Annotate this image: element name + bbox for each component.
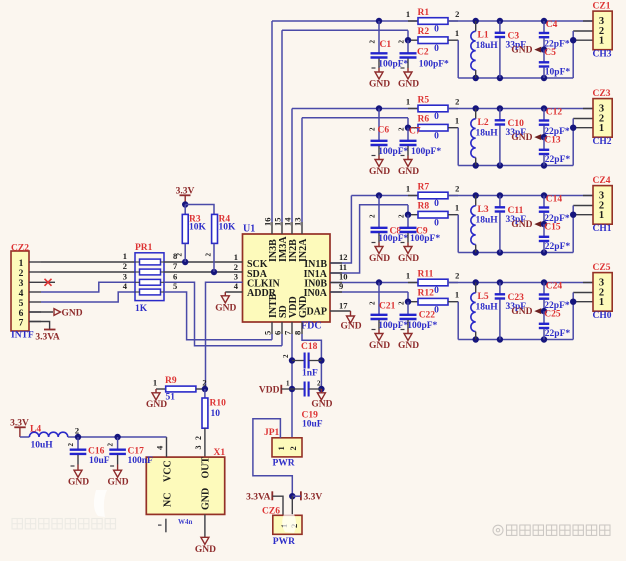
capacitor C15 (543, 224, 545, 236)
svg-text:OUT: OUT (201, 457, 212, 479)
node R4 junction (211, 269, 217, 275)
op-amp U1 body (243, 234, 331, 322)
connector CZ5 (583, 282, 593, 284)
svg-text:0: 0 (434, 44, 439, 54)
svg-text:2: 2 (288, 446, 298, 450)
svg-text:10: 10 (211, 409, 221, 419)
capacitor C25 (543, 311, 545, 323)
wire CZ2 pin1 to PR1 pin1 (41, 261, 135, 263)
svg-text:NC: NC (163, 493, 174, 507)
node between caps (541, 134, 547, 140)
ground at R9 pin1 (155, 389, 157, 393)
svg-text:C16: C16 (88, 446, 105, 456)
svg-text:4: 4 (19, 289, 24, 299)
inductor L1 (473, 18, 479, 24)
svg-text:18uH: 18uH (476, 41, 499, 51)
svg-text:1: 1 (455, 116, 459, 126)
svg-text:2: 2 (398, 127, 406, 131)
svg-text:CH2: CH2 (593, 137, 612, 147)
ground C16 (77, 465, 79, 471)
node R9/R10/CLKIN junction (202, 386, 208, 392)
svg-text:10uF: 10uF (302, 419, 323, 429)
wire JP1 pin1 to 3.3V node (253, 419, 292, 496)
svg-text:CZ3: CZ3 (593, 89, 611, 99)
wire drop to second-row junction (407, 30, 409, 40)
connector CZ2 body (11, 251, 29, 331)
svg-text:18uH: 18uH (476, 303, 499, 313)
svg-text:GND: GND (398, 341, 419, 351)
wire R11 output to connector (448, 282, 593, 284)
svg-text:6: 6 (173, 272, 177, 282)
wire net to R2 (second row) (281, 30, 283, 222)
svg-text:C6: C6 (378, 126, 390, 136)
svg-text:C4: C4 (546, 20, 558, 30)
svg-text:VCC: VCC (163, 460, 174, 482)
ground C1 (378, 68, 380, 72)
svg-text:PWR: PWR (273, 458, 295, 468)
wire net to R1 (top row) (271, 21, 273, 222)
svg-text:2: 2 (107, 443, 115, 447)
svg-text:R9: R9 (165, 376, 177, 386)
X1 pin 4 stub (166, 437, 168, 457)
capacitor C21 (376, 279, 382, 285)
svg-text:C5: C5 (544, 48, 556, 58)
watermark highlight blobs (94, 490, 107, 517)
node between caps (541, 308, 547, 314)
svg-text:12: 12 (339, 252, 348, 262)
svg-text:2: 2 (398, 214, 406, 218)
ground C21 (378, 330, 380, 334)
svg-text:4: 4 (155, 445, 165, 450)
wire 3.3VA to CZ6 pin1 (272, 496, 283, 515)
svg-text:2: 2 (123, 261, 127, 271)
capacitor C22 (405, 299, 411, 305)
svg-text:VDD: VDD (259, 386, 280, 396)
svg-text:R11: R11 (418, 270, 434, 280)
svg-text:2: 2 (369, 214, 377, 218)
connector CZ1 (583, 20, 593, 22)
svg-text:C14: C14 (546, 195, 563, 205)
svg-text:C18: C18 (301, 342, 318, 352)
svg-text:JP1: JP1 (264, 428, 280, 438)
svg-text:CH3: CH3 (593, 49, 612, 59)
DAP pin 17 to ground (330, 310, 351, 312)
svg-text:1: 1 (123, 251, 127, 261)
svg-text:0: 0 (434, 112, 439, 122)
svg-text:10uF: 10uF (89, 456, 110, 466)
svg-text:L4: L4 (30, 424, 41, 434)
wire net to R12 (second row) (330, 291, 408, 293)
wire 3.3V node to CZ6 pin2 (291, 496, 293, 515)
svg-text:DAP: DAP (306, 307, 327, 318)
svg-text:R1: R1 (418, 8, 430, 18)
wire R10 to X1 OUT (204, 428, 206, 457)
svg-text:R6: R6 (418, 115, 430, 125)
svg-text:GND: GND (398, 167, 419, 177)
svg-text:GND: GND (62, 308, 83, 318)
svg-text:C25: C25 (544, 310, 561, 320)
wire R7 output to connector (448, 195, 593, 197)
inductor L2 (473, 105, 479, 111)
wire R1 output to connector (448, 20, 593, 22)
ground at ADDR (221, 296, 229, 303)
capacitor C18 (289, 357, 295, 363)
wire drop to second-row junction (407, 292, 409, 302)
svg-text:3.3V: 3.3V (304, 492, 323, 502)
svg-text:3: 3 (194, 446, 203, 450)
svg-text:C12: C12 (546, 108, 563, 118)
svg-text:14: 14 (283, 217, 293, 226)
svg-text:2: 2 (398, 40, 406, 44)
wire PR1 pin7 to U1 SDA (164, 271, 243, 273)
CZ2 pin7 to 3.3VA power (29, 322, 50, 330)
svg-text:100nF: 100nF (128, 456, 154, 466)
wire CZ2 pin4 to PR1 pin3 (41, 282, 135, 292)
wire net to R7 (top row) (330, 196, 351, 264)
wire net to R11 (top row) (330, 282, 418, 284)
svg-text:10pF*: 10pF* (545, 68, 571, 78)
node 3.3V junction (289, 493, 295, 499)
wire L4 to X1 VCC (68, 436, 167, 438)
svg-text:2: 2 (455, 9, 459, 19)
ground C7 (407, 156, 409, 160)
capacitor C5 (543, 50, 545, 62)
svg-text:C13: C13 (544, 136, 561, 146)
svg-text:1: 1 (455, 28, 459, 38)
svg-text:22pF*: 22pF* (545, 155, 571, 165)
svg-text:2: 2 (317, 379, 321, 387)
wire net to R8 (second row) (330, 205, 408, 273)
svg-text:0: 0 (434, 199, 439, 209)
wire PR1 pin8 to U1 SCK (164, 261, 243, 263)
svg-text:1: 1 (455, 203, 459, 213)
svg-text:1nF: 1nF (302, 369, 318, 379)
svg-text:GND: GND (369, 341, 390, 351)
svg-text:GND: GND (511, 307, 532, 317)
svg-text:GND: GND (311, 400, 332, 410)
ground rail (458, 165, 573, 167)
capacitor C24 (541, 279, 547, 285)
svg-text:GND: GND (398, 254, 419, 264)
svg-text:C24: C24 (546, 282, 563, 292)
svg-text:2: 2 (369, 40, 377, 44)
wire drop to second-row junction (407, 205, 409, 215)
U1 right pin stubs (330, 262, 342, 264)
ground C6 (378, 156, 380, 160)
node C16 tap (75, 434, 81, 440)
node 3.3V junction (182, 201, 188, 207)
wire connector pins to rail (572, 206, 574, 253)
svg-text:GND: GND (340, 322, 361, 332)
svg-text:R10: R10 (210, 399, 227, 409)
svg-text:GND: GND (511, 220, 532, 230)
svg-text:GND: GND (68, 477, 89, 487)
wire to R4 top (185, 205, 214, 215)
X1 pin1 stub (165, 519, 167, 533)
connector CZ3 (583, 108, 593, 110)
svg-text:7: 7 (173, 261, 178, 271)
ground rail (458, 339, 573, 341)
svg-text:2: 2 (67, 443, 75, 447)
wire R12 to ground rail (457, 302, 459, 340)
svg-text:GND: GND (369, 254, 390, 264)
svg-text:16: 16 (263, 218, 273, 227)
wire U1 INTB pin stub (271, 322, 273, 334)
svg-text:PWR: PWR (273, 537, 295, 547)
node between caps (541, 221, 547, 227)
svg-text:2: 2 (205, 253, 213, 257)
svg-text:GND: GND (201, 488, 212, 510)
wire net to R6 (second row) (301, 118, 303, 222)
capacitor C11 (497, 192, 503, 198)
power 3.3V label (300, 491, 302, 500)
svg-text:L5: L5 (478, 292, 489, 302)
svg-text:100pF*: 100pF* (411, 147, 441, 157)
wire PR1 pin5 to U1 INTB (164, 292, 272, 340)
svg-text:CH0: CH0 (593, 311, 612, 321)
svg-text:GND: GND (195, 545, 216, 555)
svg-text:C7: C7 (409, 127, 421, 137)
svg-text:C21: C21 (379, 302, 396, 312)
inductor L3 (473, 192, 479, 198)
svg-text:2: 2 (282, 354, 290, 358)
ground C2 (407, 68, 409, 72)
svg-text:2: 2 (398, 301, 406, 305)
capacitor C2 (405, 37, 411, 43)
svg-text:C1: C1 (380, 40, 392, 50)
svg-text:CH1: CH1 (593, 224, 612, 234)
svg-text:1: 1 (406, 183, 410, 193)
svg-text:PR1: PR1 (135, 243, 153, 253)
svg-text:GND: GND (369, 167, 390, 177)
svg-text:1: 1 (599, 210, 604, 221)
resistor R4 (212, 214, 218, 243)
svg-text:C17: C17 (128, 446, 145, 456)
svg-text:1: 1 (406, 96, 410, 106)
svg-text:3: 3 (19, 279, 24, 289)
capacitor C12 (541, 105, 547, 111)
capacitor C23 (497, 279, 503, 285)
svg-text:15: 15 (273, 218, 283, 227)
svg-text:GND: GND (398, 80, 419, 90)
resistor R10 (204, 389, 206, 398)
svg-text:1: 1 (599, 297, 604, 308)
svg-text:X1: X1 (214, 448, 226, 458)
svg-text:10K: 10K (189, 223, 207, 233)
svg-text:CZ5: CZ5 (593, 263, 611, 273)
svg-text:3.3VA: 3.3VA (35, 332, 60, 342)
svg-text:GND: GND (108, 477, 129, 487)
wire connector pins to rail (572, 31, 574, 78)
svg-text:R8: R8 (418, 202, 430, 212)
svg-text:1: 1 (599, 36, 604, 47)
wire CZ2 pin5 to PR1 pin4 (41, 292, 135, 302)
svg-text:10uH: 10uH (31, 441, 54, 451)
svg-text:GND: GND (369, 80, 390, 90)
svg-text:2: 2 (369, 301, 377, 305)
svg-text:2: 2 (176, 253, 184, 257)
wire connector pins to rail (572, 119, 574, 166)
capacitor C13 (543, 137, 545, 149)
svg-text:GND: GND (511, 46, 532, 56)
svg-text:2: 2 (75, 425, 79, 435)
svg-text:R2: R2 (418, 27, 430, 37)
connector CZ6 body (273, 515, 302, 534)
svg-text:C22: C22 (419, 311, 436, 321)
svg-text:1: 1 (19, 259, 24, 269)
svg-text:1: 1 (455, 290, 459, 300)
wire R2 to ground rail (457, 40, 459, 78)
svg-text:C15: C15 (544, 223, 561, 233)
wire U1 CLKIN to R9/R10 node (206, 282, 243, 389)
watermark text imitation (493, 525, 610, 535)
ground C8 (378, 243, 380, 247)
svg-text:5: 5 (19, 299, 24, 309)
svg-text:18uH: 18uH (476, 129, 499, 139)
svg-text:L2: L2 (478, 118, 489, 128)
ground C22 (407, 330, 409, 334)
svg-text:17: 17 (339, 301, 348, 311)
svg-text:100pF*: 100pF* (410, 234, 440, 244)
svg-text:0: 0 (434, 132, 439, 142)
svg-text:1: 1 (234, 252, 238, 262)
svg-text:U1: U1 (243, 224, 255, 235)
svg-text:100pF*: 100pF* (407, 321, 437, 331)
ground C17 (117, 465, 119, 471)
svg-text:INTF: INTF (11, 331, 34, 341)
node between caps (541, 46, 547, 52)
capacitor C3 (497, 18, 503, 24)
wire drop to second-row junction (407, 118, 409, 128)
resistor R3 (184, 205, 186, 215)
svg-text:GND: GND (511, 133, 532, 143)
no-connect X on CZ2 pin3 (41, 281, 55, 283)
wire U1 SD pin stub (281, 322, 283, 334)
svg-text:3.3VA: 3.3VA (246, 492, 271, 502)
svg-text:CZ1: CZ1 (593, 2, 611, 12)
svg-text:1: 1 (599, 123, 604, 134)
capacitor C14 (541, 192, 547, 198)
svg-text:GND: GND (146, 400, 167, 410)
wire net to R5 (top row) (291, 109, 293, 223)
capacitor C9 (405, 212, 411, 218)
wire PR1 pin6 to U1 SD (164, 282, 282, 345)
svg-text:1: 1 (276, 446, 286, 450)
wire CZ2 pin2 to PR1 pin2 (41, 271, 135, 273)
svg-text:2: 2 (369, 127, 377, 131)
svg-text:0: 0 (434, 25, 439, 35)
wire U1 ADDR to ground (225, 291, 242, 293)
svg-text:100pF*: 100pF* (419, 60, 449, 70)
svg-text:L3: L3 (478, 205, 489, 215)
svg-text:7: 7 (19, 318, 24, 328)
svg-text:6: 6 (19, 309, 24, 319)
capacitor C10 (497, 105, 503, 111)
U1 top pin stubs (271, 222, 273, 234)
connector JP1 body (272, 438, 302, 457)
svg-text:W4n: W4n (178, 518, 193, 526)
svg-text:2: 2 (19, 269, 24, 279)
svg-text:7: 7 (283, 330, 293, 335)
svg-text:13: 13 (293, 218, 303, 227)
svg-text:5: 5 (263, 331, 273, 335)
ground C9 (407, 243, 409, 247)
svg-text:CZ2: CZ2 (11, 243, 29, 253)
ground rail (458, 252, 573, 254)
X1 GND pin to ground (204, 514, 206, 537)
svg-text:1: 1 (406, 9, 410, 19)
capacitor C8 (376, 192, 382, 198)
svg-text:1: 1 (153, 377, 157, 387)
connector CZ4 (583, 195, 593, 197)
svg-text:22pF*: 22pF* (545, 242, 571, 252)
wire U1 GND pin to C18 right (301, 322, 303, 334)
wire R6 to ground rail (457, 128, 459, 166)
svg-text:2: 2 (455, 183, 459, 193)
svg-text:1K: 1K (135, 304, 148, 314)
svg-text:2: 2 (455, 96, 459, 106)
svg-text:1: 1 (286, 379, 290, 387)
node R3 junction (182, 259, 188, 265)
svg-text:2: 2 (194, 436, 203, 440)
node C17 tap (114, 434, 120, 440)
ground C19 right (320, 389, 322, 393)
svg-text:0: 0 (434, 286, 439, 296)
svg-text:18uH: 18uH (476, 216, 499, 226)
svg-text:0: 0 (434, 219, 439, 229)
svg-text:L1: L1 (478, 31, 489, 41)
capacitor C1 (376, 18, 382, 24)
ground rail (458, 77, 573, 79)
svg-text:R7: R7 (418, 183, 430, 193)
svg-text:C2: C2 (417, 48, 429, 58)
svg-text:2: 2 (234, 262, 238, 272)
svg-text:6: 6 (273, 331, 283, 335)
svg-text:CZ4: CZ4 (593, 176, 611, 186)
capacitor C7 (405, 125, 411, 131)
svg-text:2: 2 (202, 377, 206, 387)
svg-text:1: 1 (406, 270, 410, 280)
svg-text:GND: GND (298, 296, 309, 318)
wire R5 output to connector (448, 108, 593, 110)
svg-text:2: 2 (455, 270, 459, 280)
svg-text:3: 3 (234, 272, 238, 282)
svg-text:GND: GND (215, 303, 236, 313)
capacitor C19 (289, 386, 295, 392)
wire R8 to ground rail (457, 215, 459, 253)
oscillator X1 body (146, 457, 224, 514)
inductor L5 (473, 279, 479, 285)
CZ2 pin6 GND net label (29, 311, 53, 313)
svg-text:10K: 10K (219, 223, 237, 233)
svg-text:R5: R5 (418, 96, 430, 106)
svg-text:R12: R12 (418, 289, 435, 299)
CZ2 pin stubs (29, 261, 41, 263)
inductor L4 (20, 436, 30, 438)
svg-text:22pF*: 22pF* (545, 329, 571, 339)
svg-text:FDC: FDC (301, 321, 322, 332)
svg-text:3: 3 (123, 272, 127, 282)
capacitor C6 (376, 105, 382, 111)
wire U1 VDD down (291, 322, 293, 334)
wire connector pins to rail (572, 293, 574, 340)
capacitor C4 (541, 18, 547, 24)
